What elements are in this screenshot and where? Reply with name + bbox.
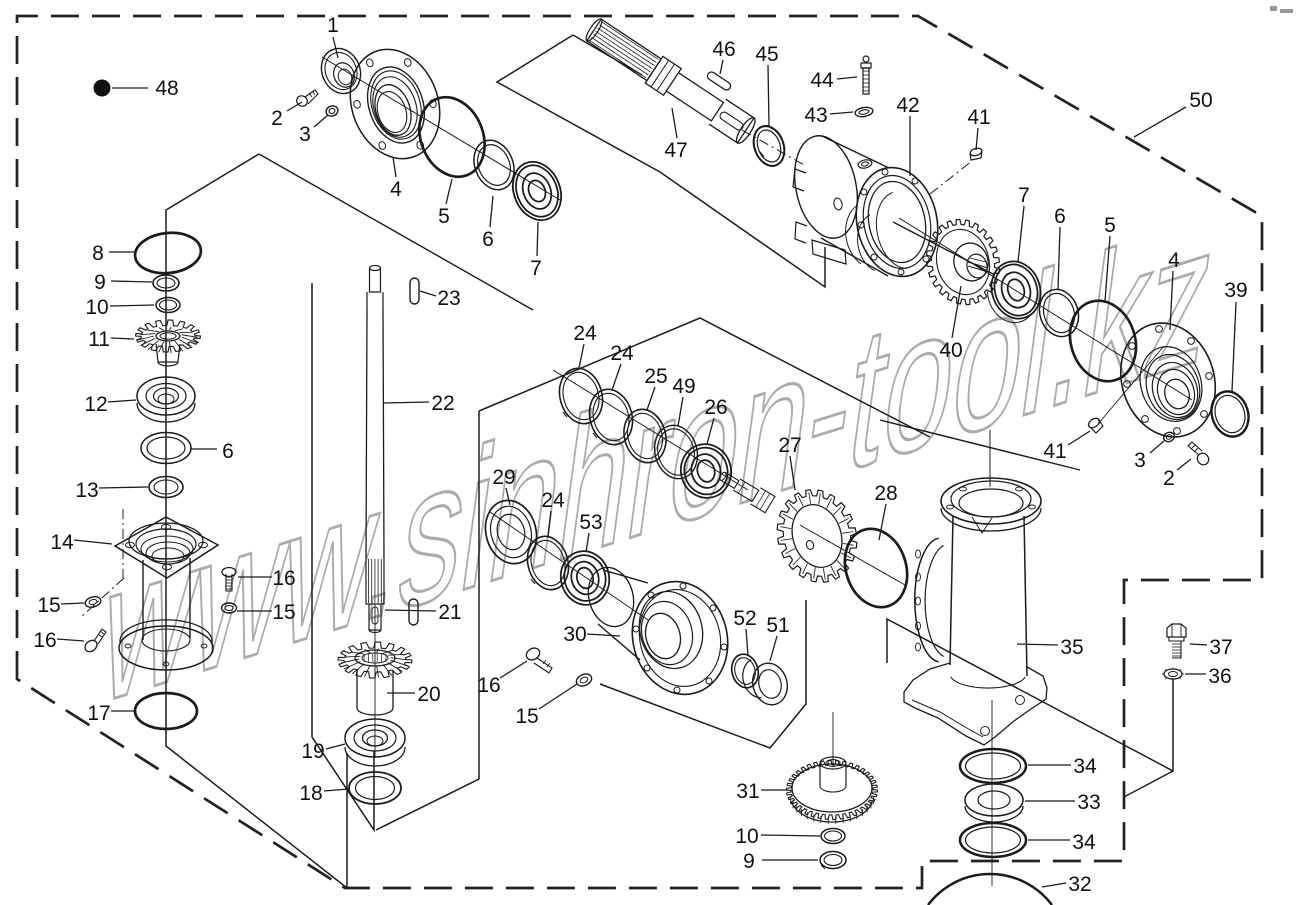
svg-text:41: 41 bbox=[967, 106, 990, 129]
svg-text:21: 21 bbox=[438, 601, 461, 624]
svg-text:39: 39 bbox=[1224, 279, 1247, 302]
svg-text:23: 23 bbox=[437, 287, 460, 310]
svg-text:33: 33 bbox=[1077, 791, 1100, 814]
panel lines right group bbox=[573, 35, 642, 75]
axis right set bbox=[899, 218, 1192, 400]
svg-text:24: 24 bbox=[610, 342, 634, 365]
svg-text:46: 46 bbox=[712, 38, 735, 61]
o-ring 8 bbox=[133, 230, 203, 277]
o-ring 28 bbox=[835, 521, 917, 616]
pin 23 bbox=[410, 278, 419, 304]
spur gear 31 bbox=[787, 761, 878, 820]
svg-text:14: 14 bbox=[50, 531, 74, 554]
snap ring 9 bottom bbox=[820, 852, 846, 869]
svg-text:4: 4 bbox=[1168, 249, 1180, 272]
ring 18 bbox=[349, 772, 401, 804]
axis left column dash-dot bbox=[165, 212, 167, 744]
svg-text:49: 49 bbox=[672, 375, 695, 398]
ring 25 bbox=[618, 405, 672, 468]
axis tower 35 top bbox=[989, 430, 991, 487]
svg-text:27: 27 bbox=[778, 434, 801, 457]
svg-text:51: 51 bbox=[766, 614, 789, 637]
svg-text:19: 19 bbox=[301, 740, 324, 763]
washer 43 bbox=[854, 106, 873, 118]
axis tower rings bbox=[991, 700, 993, 886]
svg-text:24: 24 bbox=[541, 489, 565, 512]
svg-text:10: 10 bbox=[735, 825, 758, 848]
bushing 51 bbox=[748, 659, 792, 708]
gear 40 bbox=[927, 219, 1000, 304]
svg-text:4: 4 bbox=[390, 178, 402, 201]
washer 33 bbox=[965, 784, 1023, 816]
svg-text:31: 31 bbox=[736, 780, 759, 803]
svg-text:34: 34 bbox=[1072, 831, 1096, 854]
washer 15 left bbox=[84, 595, 102, 609]
washer 15 center bbox=[574, 672, 593, 689]
bevel gear 20 bbox=[338, 642, 412, 678]
tower 35 top flange bbox=[941, 478, 1041, 524]
shaft 22 bbox=[370, 266, 381, 271]
axis 47-42 dash-dot bbox=[742, 130, 806, 166]
panel lines tower group bbox=[887, 619, 1173, 771]
svg-text:34: 34 bbox=[1073, 755, 1097, 778]
axis rings 24-27 bbox=[553, 370, 748, 490]
axis line top-left set bbox=[322, 57, 560, 200]
bearing 7 right bbox=[984, 255, 1048, 325]
bevel gear 27 disc bbox=[777, 490, 857, 582]
bolt 16 left bbox=[83, 638, 99, 654]
pin 21 bbox=[409, 599, 418, 625]
axis 14 dash-dot bbox=[80, 578, 124, 618]
tower 35 side flange bbox=[915, 538, 939, 662]
svg-text:24: 24 bbox=[573, 322, 597, 345]
svg-text:9: 9 bbox=[94, 271, 106, 294]
bearing 12 bbox=[137, 377, 195, 415]
svg-text:26: 26 bbox=[704, 396, 727, 419]
housing 42 bbox=[786, 130, 866, 244]
star washer 36 bbox=[1164, 669, 1182, 679]
watermark www.sinhron-tool.kz bbox=[89, 178, 1226, 748]
svg-text:10: 10 bbox=[85, 296, 108, 319]
panel lines mid shaft bbox=[312, 283, 374, 830]
snap ring 9 bbox=[153, 275, 179, 291]
svg-text:44: 44 bbox=[810, 69, 834, 92]
svg-text:5: 5 bbox=[438, 205, 450, 228]
panel lines left column bbox=[166, 154, 347, 888]
snap ring 34 lower bbox=[960, 823, 1026, 857]
snap ring 24b bbox=[583, 385, 638, 450]
washer 3 right bbox=[1162, 431, 1175, 443]
svg-text:3: 3 bbox=[1134, 449, 1146, 472]
svg-text:6: 6 bbox=[1054, 205, 1066, 228]
bolt 37 bbox=[1167, 624, 1186, 637]
spline of 22 bbox=[366, 558, 384, 604]
snap ring 45 bbox=[748, 122, 789, 170]
snap ring 24a bbox=[553, 364, 608, 429]
svg-text:45: 45 bbox=[755, 43, 778, 66]
item 48 solid dot bbox=[94, 80, 111, 97]
svg-text:52: 52 bbox=[733, 607, 756, 630]
svg-text:32: 32 bbox=[1068, 873, 1091, 896]
bevel gear 11 bbox=[136, 320, 201, 352]
svg-text:2: 2 bbox=[271, 107, 283, 130]
svg-text:15: 15 bbox=[515, 705, 538, 728]
snap ring 34 upper bbox=[960, 749, 1026, 783]
bearing 7 bbox=[504, 155, 569, 228]
ring 6 right bbox=[1034, 284, 1085, 341]
panel lines top-left group bbox=[497, 35, 825, 287]
svg-text:25: 25 bbox=[644, 365, 667, 388]
svg-text:15: 15 bbox=[37, 594, 60, 617]
svg-text:18: 18 bbox=[299, 782, 322, 805]
ring 39 bbox=[1206, 387, 1254, 442]
seal 29 bbox=[479, 495, 544, 570]
svg-text:12: 12 bbox=[84, 393, 107, 416]
shaft 47 bbox=[582, 14, 759, 146]
ring 10 bbox=[156, 298, 180, 313]
tower 35 baseplate bbox=[904, 663, 1047, 745]
bearing 53 bbox=[555, 546, 615, 611]
o-ring 17 bbox=[135, 693, 197, 729]
flange 4 bbox=[335, 37, 454, 172]
ring 13 bbox=[149, 477, 183, 498]
ring 6 left col bbox=[141, 433, 191, 464]
hub of 31 bbox=[819, 764, 821, 786]
bolt 16 center bbox=[524, 646, 542, 663]
svg-text:2: 2 bbox=[1163, 467, 1175, 490]
svg-text:6: 6 bbox=[222, 440, 234, 463]
housing 30 bbox=[582, 562, 640, 631]
snap ring 24c bbox=[522, 532, 575, 595]
svg-text:28: 28 bbox=[874, 482, 897, 505]
svg-text:22: 22 bbox=[431, 392, 454, 415]
svg-text:11: 11 bbox=[88, 328, 110, 351]
o-ring 5 bbox=[408, 87, 496, 186]
svg-text:42: 42 bbox=[896, 94, 919, 117]
corner logo marks bbox=[1270, 6, 1277, 11]
svg-text:53: 53 bbox=[579, 511, 602, 534]
pinion shaft 27 bbox=[716, 467, 775, 513]
svg-text:48: 48 bbox=[155, 77, 178, 100]
svg-text:30: 30 bbox=[563, 623, 586, 646]
snap ring 52 bbox=[728, 651, 762, 691]
axis 27-28 bbox=[800, 525, 905, 585]
svg-text:41: 41 bbox=[1043, 440, 1066, 463]
svg-text:7: 7 bbox=[1018, 184, 1030, 207]
panel lines 51-52 group bbox=[600, 600, 806, 748]
svg-text:16: 16 bbox=[33, 629, 56, 652]
grease fitting 44 bbox=[863, 56, 869, 62]
svg-text:37: 37 bbox=[1209, 636, 1232, 659]
screw 2 right bbox=[1195, 451, 1211, 467]
svg-text:9: 9 bbox=[743, 850, 755, 873]
plug 41 lower bbox=[1087, 416, 1101, 429]
key 46 bbox=[706, 70, 732, 91]
washer 49 bbox=[649, 420, 704, 483]
plug 41 top bbox=[969, 147, 982, 157]
svg-text:6: 6 bbox=[482, 228, 494, 251]
panel lines middle group bbox=[479, 318, 930, 437]
o-ring 5 right bbox=[1060, 292, 1146, 390]
svg-text:16: 16 bbox=[477, 674, 500, 697]
svg-text:20: 20 bbox=[417, 683, 440, 706]
svg-text:16: 16 bbox=[272, 567, 295, 590]
svg-text:47: 47 bbox=[664, 139, 687, 162]
svg-text:36: 36 bbox=[1208, 665, 1231, 688]
tube of 14 bbox=[142, 560, 144, 640]
svg-text:13: 13 bbox=[75, 479, 98, 502]
washer 3 bbox=[325, 104, 340, 118]
bolt 16 mid bbox=[222, 568, 236, 577]
bearing 26 bbox=[675, 438, 737, 503]
svg-text:17: 17 bbox=[87, 702, 110, 725]
flange 14 bbox=[115, 517, 218, 578]
svg-text:5: 5 bbox=[1104, 214, 1116, 237]
axis mid column bbox=[374, 604, 376, 758]
cover 32 arc bbox=[928, 874, 1052, 905]
svg-text:15: 15 bbox=[272, 601, 295, 624]
bearing 19 bbox=[345, 719, 405, 757]
tower 35 body bbox=[950, 516, 953, 665]
screw 2 bbox=[295, 94, 310, 109]
bearing 1 bbox=[315, 43, 367, 100]
svg-text:3: 3 bbox=[299, 123, 311, 146]
axis gear 31 bbox=[832, 712, 834, 764]
axis rings to 30 bbox=[490, 512, 648, 620]
ring 10 bottom bbox=[821, 829, 845, 844]
axis 42-41 dash-dot bbox=[930, 161, 972, 194]
svg-text:43: 43 bbox=[804, 104, 827, 127]
flange 4 right bbox=[1106, 311, 1229, 450]
ring 6 bbox=[467, 134, 521, 196]
svg-text:35: 35 bbox=[1060, 636, 1083, 659]
svg-text:29: 29 bbox=[492, 466, 515, 489]
svg-text:40: 40 bbox=[939, 339, 962, 362]
svg-text:50: 50 bbox=[1189, 89, 1212, 112]
svg-text:8: 8 bbox=[92, 242, 104, 265]
washer 15 mid bbox=[222, 603, 237, 613]
svg-text:7: 7 bbox=[530, 257, 542, 280]
svg-text:1: 1 bbox=[327, 14, 339, 37]
